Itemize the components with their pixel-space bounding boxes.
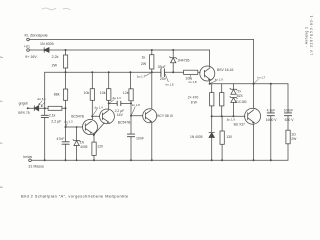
svg-text:Bild 2 Schaltplan "A", vorges: Bild 2 Schaltplan "A", vorgeschriebene M… — [21, 194, 129, 199]
node ground R8 — [93, 159, 95, 161]
edge speck 1 — [0, 56, 3, 58]
wire R1 bottom lead — [65, 68, 67, 89]
wire R12 top lead — [221, 116, 223, 131]
svg-text:1600 V: 1600 V — [266, 118, 277, 122]
wire T1 emitter lead — [93, 134, 94, 142]
wire R11 bottom lead — [221, 106, 223, 116]
node T3 base tap — [130, 115, 132, 117]
annotation arrow kn1,8 C5 — [165, 74, 168, 82]
wire C4 bottom lead — [130, 137, 132, 161]
wire T5 base rail — [212, 115, 245, 117]
svg-text:BZX: BZX — [237, 94, 244, 98]
annotation arrow du1,4 — [93, 109, 97, 115]
resistor R10 470 — [210, 93, 214, 106]
wire C7 top lead — [287, 84, 289, 113]
node rail/D2 — [172, 71, 174, 73]
zener D5a BZX61C180 — [230, 88, 237, 94]
wire C3 right lead — [121, 102, 131, 104]
wire ground rail — [31, 159, 288, 161]
svg-text:BC547B: BC547B — [71, 114, 84, 118]
svg-text:2,2 µF: 2,2 µF — [51, 120, 61, 124]
svg-text:+U1: +U1 — [24, 45, 30, 49]
transistor T2 BC547B — [100, 109, 115, 124]
svg-text:10k: 10k — [84, 91, 90, 95]
svg-text:100nF: 100nF — [284, 109, 294, 113]
capacitor C4 10nF — [127, 134, 134, 137]
wire C1 bottom lead — [44, 118, 46, 161]
wire C6 top lead — [270, 84, 272, 113]
node supply/R1 junction — [65, 49, 67, 51]
wire R10 bottom lead — [211, 106, 213, 116]
wire middle column — [130, 101, 132, 134]
wire R5 top lead — [108, 72, 110, 88]
node T4 collector — [209, 83, 211, 85]
node ground D4 — [76, 159, 78, 161]
wire left column middle — [65, 100, 67, 141]
wire T3 base lead — [131, 115, 143, 117]
node output/coil — [253, 83, 255, 85]
wire R7 top lead — [151, 50, 153, 55]
svg-text:2,2k: 2,2k — [52, 55, 59, 59]
wire T4 collector lead — [209, 81, 211, 84]
resistor R13 1R 2W — [286, 130, 290, 144]
svg-text:88k: 88k — [54, 92, 60, 96]
svg-text:kn 1,8: kn 1,8 — [166, 82, 174, 86]
node base/R10 — [211, 115, 213, 117]
svg-text:Δu 5,1: Δu 5,1 — [37, 97, 46, 101]
svg-text:10k: 10k — [100, 91, 106, 95]
annotation arrow du1,3 mid — [110, 100, 115, 103]
transistor T5 BU X37 — [245, 108, 261, 124]
wire C2 bottom lead — [65, 144, 67, 160]
wire rail left drop — [44, 72, 46, 115]
wire D2 bottom lead — [172, 63, 174, 73]
node C3 right — [130, 102, 132, 104]
svg-text:- Anhang 1: - Anhang 1 — [305, 27, 309, 47]
svg-text:BU X37: BU X37 — [234, 122, 246, 126]
node base/R11 — [221, 115, 223, 117]
wire D6 bottom lead — [211, 137, 213, 160]
resistor R7 1k 2W — [150, 55, 154, 69]
wire C6 bottom lead — [270, 116, 272, 161]
annotation arrow du1,7 — [145, 73, 151, 76]
wire R6 top lead — [129, 72, 132, 89]
svg-text:33µF: 33µF — [158, 65, 166, 69]
wire D5 bottom lead — [233, 102, 235, 116]
node T1 base tap — [65, 126, 67, 128]
node input/R3 — [65, 107, 67, 109]
resistor R11 470 — [220, 93, 224, 106]
wire T5 emitter to ground — [253, 124, 255, 161]
wire R13 bottom lead — [287, 144, 289, 161]
svg-text:1N 4005: 1N 4005 — [190, 135, 203, 139]
annotation arrow du1,3 left — [66, 123, 67, 126]
svg-text:kn 1,9: kn 1,9 — [215, 77, 223, 81]
zener D4 1N4005 — [73, 140, 80, 146]
wire output rail — [210, 83, 288, 85]
wire R1 top lead — [65, 50, 67, 55]
node ground T5 — [253, 159, 255, 161]
resistor R6 12k — [129, 89, 133, 101]
wire R7 bottom lead — [151, 69, 153, 72]
node base/D5 — [233, 115, 235, 117]
svg-text:2× 470: 2× 470 — [188, 96, 199, 100]
zener D5b BZX61C180 — [230, 97, 237, 103]
svg-text:10nF: 10nF — [136, 136, 144, 140]
wire T3 collector — [151, 72, 153, 109]
capacitor C2 47nF — [62, 142, 69, 144]
wire T3 emitter — [151, 123, 153, 161]
terminal pickup gr/geb — [27, 107, 29, 109]
resistor R1 2,2k 2W — [63, 55, 67, 68]
svg-text:630 V: 630 V — [285, 118, 295, 122]
resistor R9 10k — [184, 70, 198, 74]
pencil mark top left — [42, 8, 70, 10]
svg-text:Kl. Zündspule: Kl. Zündspule — [25, 34, 48, 38]
capacitor C1 2,2uF — [41, 115, 48, 117]
svg-text:gr/geb: gr/geb — [19, 101, 29, 105]
svg-text:BC547B: BC547B — [118, 120, 131, 124]
zener D2 1N4735 — [170, 57, 177, 63]
node rail/left column — [65, 71, 67, 73]
svg-text:Δu 1,4: Δu 1,4 — [94, 105, 103, 109]
node ground C6 — [270, 159, 272, 161]
svg-text:61C180: 61C180 — [235, 100, 246, 104]
wire R8 bottom lead — [93, 155, 95, 160]
resistor R4 10k — [90, 89, 94, 101]
svg-text:130: 130 — [226, 135, 232, 139]
wire R3 right lead — [62, 107, 66, 109]
wire C7 to R13 — [287, 116, 289, 131]
diode D6 1N4005 — [209, 133, 214, 138]
node ground C2 — [65, 159, 67, 161]
wire R10 top lead — [211, 84, 213, 93]
svg-text:8 W: 8 W — [191, 100, 198, 104]
wire C3 left lead — [109, 102, 118, 104]
svg-text:2W: 2W — [141, 62, 147, 66]
capacitor C6 4,7nF 1600V — [267, 113, 274, 116]
svg-text:12k: 12k — [123, 91, 129, 95]
svg-text:BSV 16-16: BSV 16-16 — [217, 68, 234, 72]
wire pickup to photodiode — [29, 107, 35, 109]
node supply/D2 — [172, 49, 174, 51]
wire R11 top lead — [221, 84, 223, 93]
node supply/R7 — [151, 49, 153, 51]
node emitters — [93, 134, 95, 136]
transistor T4 BSV16-16 — [200, 66, 215, 81]
svg-text:1N4735: 1N4735 — [177, 58, 189, 62]
svg-text:16V: 16V — [117, 113, 124, 117]
wire R4 top lead — [91, 72, 93, 88]
resistor R2 88k — [63, 89, 67, 100]
svg-text:Δu 1,3: Δu 1,3 — [112, 96, 121, 100]
svg-text:Δu 1,7: Δu 1,7 — [137, 74, 146, 78]
svg-text:2W: 2W — [291, 137, 297, 141]
svg-text:47nF: 47nF — [57, 137, 65, 141]
node C3 left — [108, 102, 110, 104]
wire mid rail — [45, 71, 201, 73]
svg-text:4005: 4005 — [80, 145, 87, 149]
resistor R8 120 — [92, 142, 96, 155]
svg-text:120: 120 — [97, 145, 103, 149]
terminal +U1 — [27, 49, 30, 52]
svg-text:4,7nF: 4,7nF — [267, 109, 276, 113]
light arrow 1 — [39, 101, 42, 105]
node rail/R6 — [129, 71, 131, 73]
node ground C4 — [130, 159, 132, 161]
wire T1 base — [66, 126, 83, 128]
svg-text:bn/ws: bn/ws — [23, 155, 32, 159]
wire +U1 to diode — [29, 49, 44, 51]
wire D4 bottom lead — [76, 145, 78, 160]
wire photodiode to R3 — [39, 107, 48, 109]
transistor T1 BC547B — [83, 120, 98, 135]
svg-text:Δu 1,9: Δu 1,9 — [227, 117, 236, 121]
svg-text:Δu 1,3: Δu 1,3 — [64, 119, 73, 123]
svg-text:1Ω: 1Ω — [291, 132, 296, 136]
edge speck 4 — [0, 186, 2, 188]
svg-text:LV 3287E53-80-1: LV 3287E53-80-1 — [310, 14, 314, 55]
svg-text:1N 4005: 1N 4005 — [40, 42, 54, 46]
resistor R5 10k — [107, 89, 111, 101]
wire top line to corner — [29, 39, 253, 41]
wire D4 top lead — [76, 127, 78, 140]
wire D6 top lead — [211, 116, 213, 132]
wire T2 base lead — [92, 115, 99, 117]
svg-text:1N: 1N — [80, 140, 85, 144]
svg-text:BPX 75: BPX 75 — [18, 111, 29, 115]
node ground C1 — [44, 159, 46, 161]
edge speck 2 — [0, 100, 2, 102]
wire coil line down to T5 — [253, 40, 255, 109]
node ground R12 — [221, 159, 223, 161]
annotation arrow kn1,9 — [211, 81, 217, 84]
svg-text:25V: 25V — [160, 77, 167, 81]
capacitor C5 33uF 25V — [161, 69, 165, 77]
transistor T3 BCY58 — [143, 109, 157, 123]
node rail/R4 — [91, 71, 93, 73]
terminal Kl. Zündspule — [27, 38, 30, 41]
node rail/R7-T3 — [151, 71, 153, 73]
wire T2 emitter lead — [94, 123, 104, 135]
annotation arrow kn1,8 R6 — [132, 107, 136, 115]
wire D5 zener stack top lead — [233, 84, 235, 90]
light arrow 2 — [41, 102, 44, 106]
node rail/R5 — [108, 71, 110, 73]
terminal 31 Masse — [29, 159, 32, 162]
svg-text:kn 1,8: kn 1,8 — [132, 103, 140, 107]
capacitor C7 100nF 630V — [284, 113, 291, 116]
node T1 collector / T2 base — [91, 115, 93, 117]
node zener D4 tap — [76, 126, 78, 128]
resistor R12 130 — [220, 131, 224, 144]
wire T4 emitter to supply — [209, 50, 211, 67]
node output/C6 — [270, 83, 272, 85]
svg-text:2W: 2W — [52, 63, 58, 67]
wire supply line — [49, 49, 210, 51]
svg-text:2,1k: 2,1k — [49, 114, 56, 118]
annotation arrow kn1,8 R9 — [190, 75, 193, 79]
wire T2 collector — [108, 100, 110, 109]
node C1 top — [44, 107, 46, 109]
node ground T3 — [151, 159, 153, 161]
resistor R3 2,1k — [48, 106, 62, 110]
wire R12 bottom lead — [221, 144, 223, 160]
svg-text:9+ 16V: 9+ 16V — [25, 55, 37, 59]
svg-text:BCY 58 IX: BCY 58 IX — [157, 114, 174, 118]
edge speck 3 — [0, 142, 2, 144]
node ground D6 — [211, 159, 213, 161]
annotation arrow kn1,7 — [254, 79, 258, 83]
wire D2 top lead — [172, 50, 174, 58]
svg-text:31 Masse: 31 Masse — [28, 165, 44, 169]
capacitor C3 2,2uF 16V — [117, 101, 121, 105]
svg-text:1k: 1k — [142, 55, 146, 59]
svg-text:2×: 2× — [238, 89, 242, 93]
svg-text:kn 1,8: kn 1,8 — [189, 80, 197, 84]
wire T1 collector — [91, 100, 93, 119]
diode D1 1N4005 — [44, 48, 49, 53]
photodiode BPX75 — [34, 106, 38, 111]
svg-text:kn 1,7: kn 1,7 — [257, 76, 265, 80]
